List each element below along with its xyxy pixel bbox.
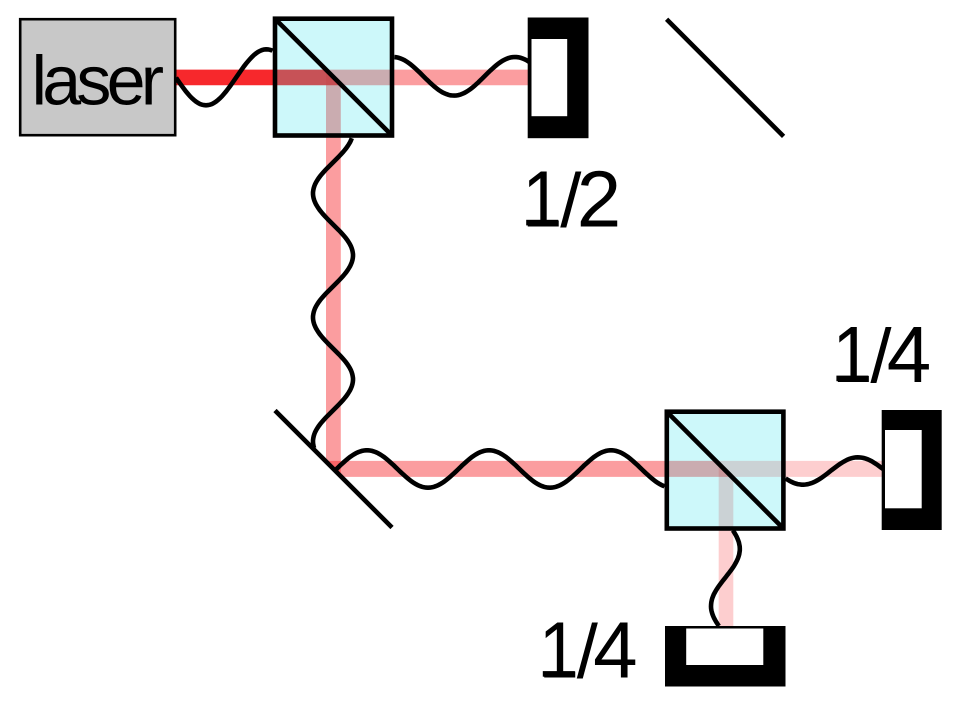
svg-text:1: 1 bbox=[522, 154, 562, 243]
svg-text:1: 1 bbox=[832, 310, 872, 399]
svg-text:laser: laser bbox=[32, 41, 165, 119]
svg-text:4: 4 bbox=[593, 606, 638, 695]
svg-text:1: 1 bbox=[539, 606, 579, 695]
svg-text:2: 2 bbox=[577, 154, 622, 243]
svg-text:4: 4 bbox=[887, 310, 932, 399]
